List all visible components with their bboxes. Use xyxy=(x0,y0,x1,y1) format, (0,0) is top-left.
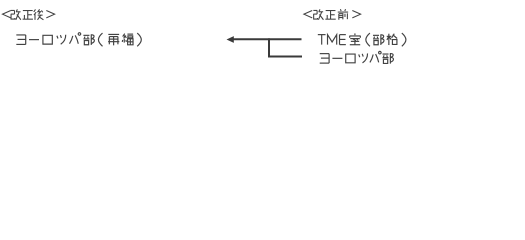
label header kaisei-go (after revision) xyxy=(3,9,55,19)
label yoroppa-bu saihen (Europe Dept reorganised) xyxy=(16,33,141,47)
label header kaisei-mae (before revision) xyxy=(304,9,361,20)
label TME-shitsu (bukaku) xyxy=(318,33,406,46)
label yoroppa-bu (Europe Dept) xyxy=(320,51,394,63)
wire vertical drop xyxy=(268,38,270,56)
arrow head pointing left xyxy=(227,36,234,43)
wire bottom horizontal xyxy=(268,56,302,58)
wire top horizontal (arrow shaft) xyxy=(233,38,302,40)
